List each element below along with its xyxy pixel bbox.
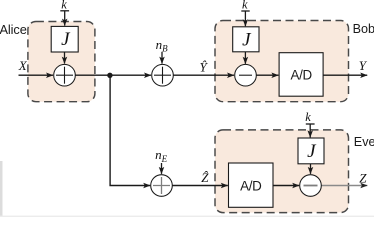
svg-text:Z: Z bbox=[359, 170, 367, 185]
svg-text:A/D: A/D bbox=[240, 179, 262, 194]
svg-text:Eve: Eve bbox=[354, 135, 374, 149]
svg-text:k: k bbox=[242, 0, 248, 12]
svg-text:k: k bbox=[305, 110, 311, 124]
svg-text:X: X bbox=[18, 58, 28, 73]
svg-text:Alice: Alice bbox=[0, 22, 27, 37]
svg-text:Ẑ: Ẑ bbox=[201, 170, 209, 185]
svg-text:A/D: A/D bbox=[290, 67, 312, 82]
svg-text:k: k bbox=[61, 0, 67, 12]
svg-text:Bob: Bob bbox=[353, 22, 374, 36]
